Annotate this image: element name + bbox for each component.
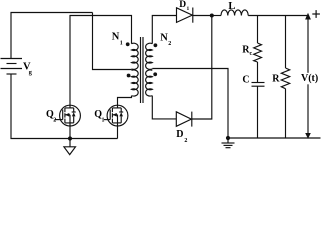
resistor R [281, 68, 289, 89]
node bottom-right junction [226, 136, 230, 140]
polarity dot N1 bottom [127, 74, 131, 78]
wire top rail A battery positive [11, 13, 93, 59]
label Vg [23, 62, 33, 77]
svg-text:1: 1 [187, 6, 190, 12]
wire Q2 source [69, 126, 71, 139]
ground earth symbol [222, 138, 235, 148]
diode D1 [177, 8, 193, 23]
label Q1 [94, 109, 104, 124]
label D2 [176, 129, 187, 144]
svg-text:V(t): V(t) [301, 73, 318, 84]
battery V_g [1, 59, 23, 75]
polarity dot N2 top [154, 43, 158, 47]
wire N2 bottom to D2 anode [152, 96, 176, 119]
wire R bottom to rail [285, 89, 287, 138]
wire Q2 drain rail B to N1 top [70, 16, 132, 106]
plus sign [312, 10, 320, 18]
winding N1 lower primary [132, 70, 139, 96]
wire R branch top [285, 16, 287, 69]
diode D2 [176, 112, 192, 127]
resistor Rc [254, 43, 262, 62]
voltage arrow V(t) [305, 13, 311, 139]
wire Rc to C [257, 62, 259, 83]
polarity dot N1 top [126, 42, 130, 46]
wire C bottom to rail [257, 86, 259, 138]
label N1 [112, 32, 123, 47]
winding N2 lower secondary [146, 70, 153, 96]
wire N2 top to D1 anode [152, 16, 176, 44]
svg-text:R: R [272, 73, 280, 84]
transformer core [141, 37, 144, 103]
svg-text:2: 2 [168, 41, 171, 47]
svg-text:2: 2 [53, 118, 56, 124]
svg-text:N: N [160, 33, 168, 44]
wire drop to primary center tap [93, 13, 132, 70]
svg-text:D: D [179, 0, 186, 10]
wire battery negative to bottom-left rail [11, 74, 118, 139]
svg-text:L: L [228, 1, 235, 12]
ground open triangle [64, 139, 76, 155]
winding N1 upper primary [132, 43, 139, 69]
svg-text:D: D [176, 129, 183, 140]
svg-text:C: C [242, 74, 249, 85]
transistor Q1 [104, 105, 128, 126]
svg-text:1: 1 [102, 118, 105, 124]
svg-text:1: 1 [120, 40, 123, 46]
label N2 [160, 33, 171, 48]
wire D1 cathode to node [193, 15, 212, 17]
wire Rc branch top [257, 16, 259, 44]
label V(t) [300, 73, 318, 85]
node bottom-left junction [68, 136, 72, 140]
wire node to inductor [212, 15, 221, 17]
label Q2 [46, 109, 56, 124]
wire D2 cathode up to node [192, 16, 212, 120]
wire output top rail [248, 15, 308, 17]
polarity dot N2 bottom [153, 72, 157, 76]
svg-text:N: N [112, 32, 120, 43]
winding N2 upper secondary [146, 43, 153, 69]
wire Q1 source [117, 126, 119, 139]
svg-text:c: c [250, 51, 253, 57]
svg-text:2: 2 [184, 138, 187, 144]
label Rc [242, 44, 252, 57]
inductor L [221, 10, 248, 16]
wire Q1 drain to N1 bottom end [118, 96, 132, 106]
wire bottom output rail [228, 137, 321, 139]
label D1 [179, 0, 189, 12]
transistor Q2 [55, 105, 81, 126]
capacitor C [252, 83, 265, 87]
node diode output junction [210, 14, 214, 18]
svg-text:g: g [29, 69, 33, 76]
wire secondary center tap to ground [152, 69, 228, 139]
